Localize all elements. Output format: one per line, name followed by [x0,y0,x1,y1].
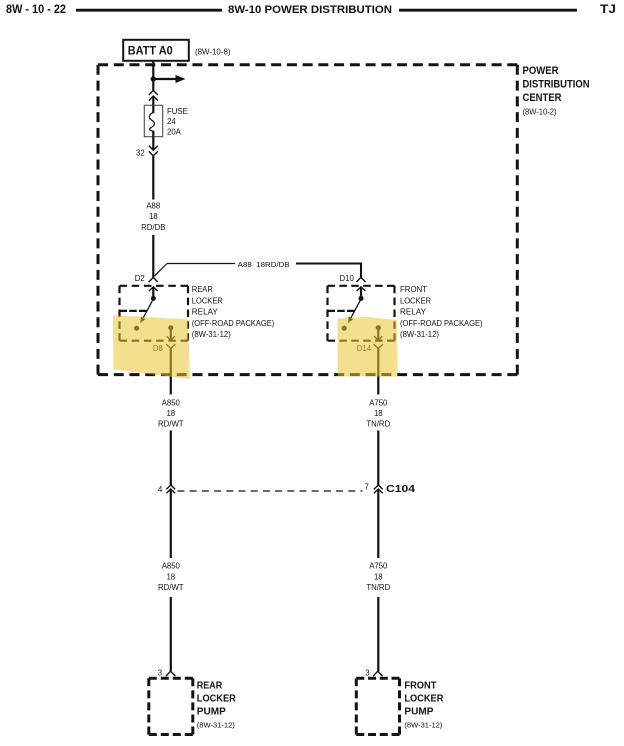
svg-text:18: 18 [374,572,383,581]
svg-text:(8W-10-2): (8W-10-2) [523,108,557,117]
svg-text:LOCKER: LOCKER [192,296,223,305]
front locker relay label [400,285,483,339]
power distribution center dashed box [98,65,517,375]
svg-text:RD/WT: RD/WT [158,583,184,592]
wire fuse to cavity connector [152,137,154,150]
front relay output contact [374,325,382,340]
rear locker pump box [149,678,193,734]
rear relay pin D2 terminal [149,287,158,301]
svg-text:RELAY: RELAY [400,308,427,317]
svg-text:A88: A88 [146,201,160,210]
svg-text:POWER: POWER [523,65,559,77]
svg-text:3: 3 [365,668,369,677]
svg-text:(OFF-ROAD PACKAGE): (OFF-ROAD PACKAGE) [192,319,275,328]
rear locker relay label [192,285,275,339]
svg-text:4: 4 [158,485,163,494]
front relay switch arm [348,300,360,323]
svg-text:TN/RD: TN/RD [366,419,390,428]
wire to rear pump [170,597,172,671]
front pump pin 3 terminal [373,671,382,676]
svg-text:(8W-31-12): (8W-31-12) [192,330,231,339]
wire label to relay pin D2 [152,235,154,278]
battery feed BATT A0 box [123,40,189,61]
svg-text:A750: A750 [369,399,388,408]
svg-text:(8W-10-8): (8W-10-8) [195,47,231,56]
svg-text:REAR: REAR [197,680,223,692]
svg-text:TN/RD: TN/RD [366,583,390,592]
svg-text:LOCKER: LOCKER [400,296,431,305]
front relay contact node [342,326,347,331]
in-line connector chevrons above fuse [149,90,158,100]
wire connector to fuse [152,96,154,105]
highlight rear locker relay pins [113,315,190,379]
svg-text:(8W-31-12): (8W-31-12) [197,721,235,730]
rear relay contact node [134,326,139,331]
wire label A850 18 RD/WT upper [158,399,184,429]
wire junction to connector [152,79,154,91]
svg-text:PUMP: PUMP [404,706,433,718]
svg-text:BATT A0: BATT A0 [128,45,173,57]
svg-text:REAR: REAR [192,285,213,294]
svg-text:PUMP: PUMP [197,706,226,718]
svg-text:8W-10 POWER DISTRIBUTION: 8W-10 POWER DISTRIBUTION [228,4,392,16]
svg-text:3: 3 [158,668,162,677]
svg-text:FRONT: FRONT [404,680,437,692]
svg-text:20A: 20A [167,128,182,137]
svg-text:FUSE: FUSE [167,107,188,116]
header rule left [76,9,222,12]
svg-text:CENTER: CENTER [523,92,562,104]
branch wire right segment [296,264,361,278]
front relay pin D10 terminal [357,287,366,301]
wire C104 left down [170,489,172,558]
front locker pump label [404,680,443,730]
connector D8 terminal [166,344,175,351]
svg-text:32: 32 [136,148,145,157]
svg-text:D10: D10 [340,274,355,283]
svg-text:RELAY: RELAY [192,308,219,317]
svg-text:D2: D2 [135,274,145,283]
wire label A850 18 RD/WT lower [158,562,184,593]
rear locker relay box [120,286,189,341]
connector C104 left terminal [166,485,175,493]
front locker pump box [356,678,399,734]
svg-text:8W - 10 - 22: 8W - 10 - 22 [6,4,66,16]
svg-text:LOCKER: LOCKER [197,693,236,705]
rear relay switch arm [140,300,152,323]
svg-text:(8W-31-12): (8W-31-12) [404,721,442,730]
svg-text:A750: A750 [369,562,388,571]
svg-text:LOCKER: LOCKER [404,693,443,705]
feed arrow to other circuits [153,75,185,83]
svg-text:RD/DB: RD/DB [141,223,165,232]
wire to label A88 [152,156,154,200]
wire to C104 right [377,431,379,486]
wire battery to junction [152,61,154,79]
front locker relay box [328,286,395,341]
power distribution center label [523,65,590,117]
fuse 24 20A [144,105,162,136]
wire to C104 left [170,431,172,486]
svg-text:24: 24 [167,117,176,126]
header rule right [399,9,577,12]
wire D14 down [377,348,379,394]
svg-text:TJ: TJ [600,4,616,16]
wire label A750 18 TN/RD upper [366,399,390,429]
svg-text:18: 18 [166,409,175,418]
svg-text:A850: A850 [162,399,181,408]
rear pump pin 3 terminal [166,671,175,676]
svg-text:A850: A850 [162,562,181,571]
connector D14 terminal [374,344,383,351]
highlight front locker relay pins [338,317,398,377]
wire label A88 18 RD/DB [141,201,165,232]
wire to front pump [377,597,379,671]
connector D10 chevron [356,277,365,282]
rear locker pump label [197,680,236,730]
connector C104 dashed tie line [178,490,363,492]
wire C104 right down [377,489,379,558]
svg-text:RD/WT: RD/WT [158,419,184,428]
svg-text:18: 18 [374,409,383,418]
svg-text:(OFF-ROAD PACKAGE): (OFF-ROAD PACKAGE) [400,319,483,328]
connector D2 chevron [149,277,158,282]
svg-text:FRONT: FRONT [400,285,427,294]
svg-text:(8W-31-12): (8W-31-12) [400,330,439,339]
svg-text:C104: C104 [386,483,415,495]
svg-text:18: 18 [166,572,175,581]
branch wire left segment [167,263,235,265]
junction node [151,76,156,81]
svg-text:18: 18 [149,212,158,221]
rear relay output contact [167,325,175,340]
connector C104 right terminal [374,485,383,493]
branch leader from wire [155,264,167,276]
wire D8 down [170,348,172,394]
svg-text:A88 18RD/DB: A88 18RD/DB [238,260,290,269]
svg-text:DISTRIBUTION: DISTRIBUTION [523,79,590,91]
fuse label [167,107,188,137]
PDC cavity 32 connector chevrons [149,146,158,156]
wire label A750 18 TN/RD lower [366,562,390,593]
svg-text:7: 7 [365,483,369,492]
